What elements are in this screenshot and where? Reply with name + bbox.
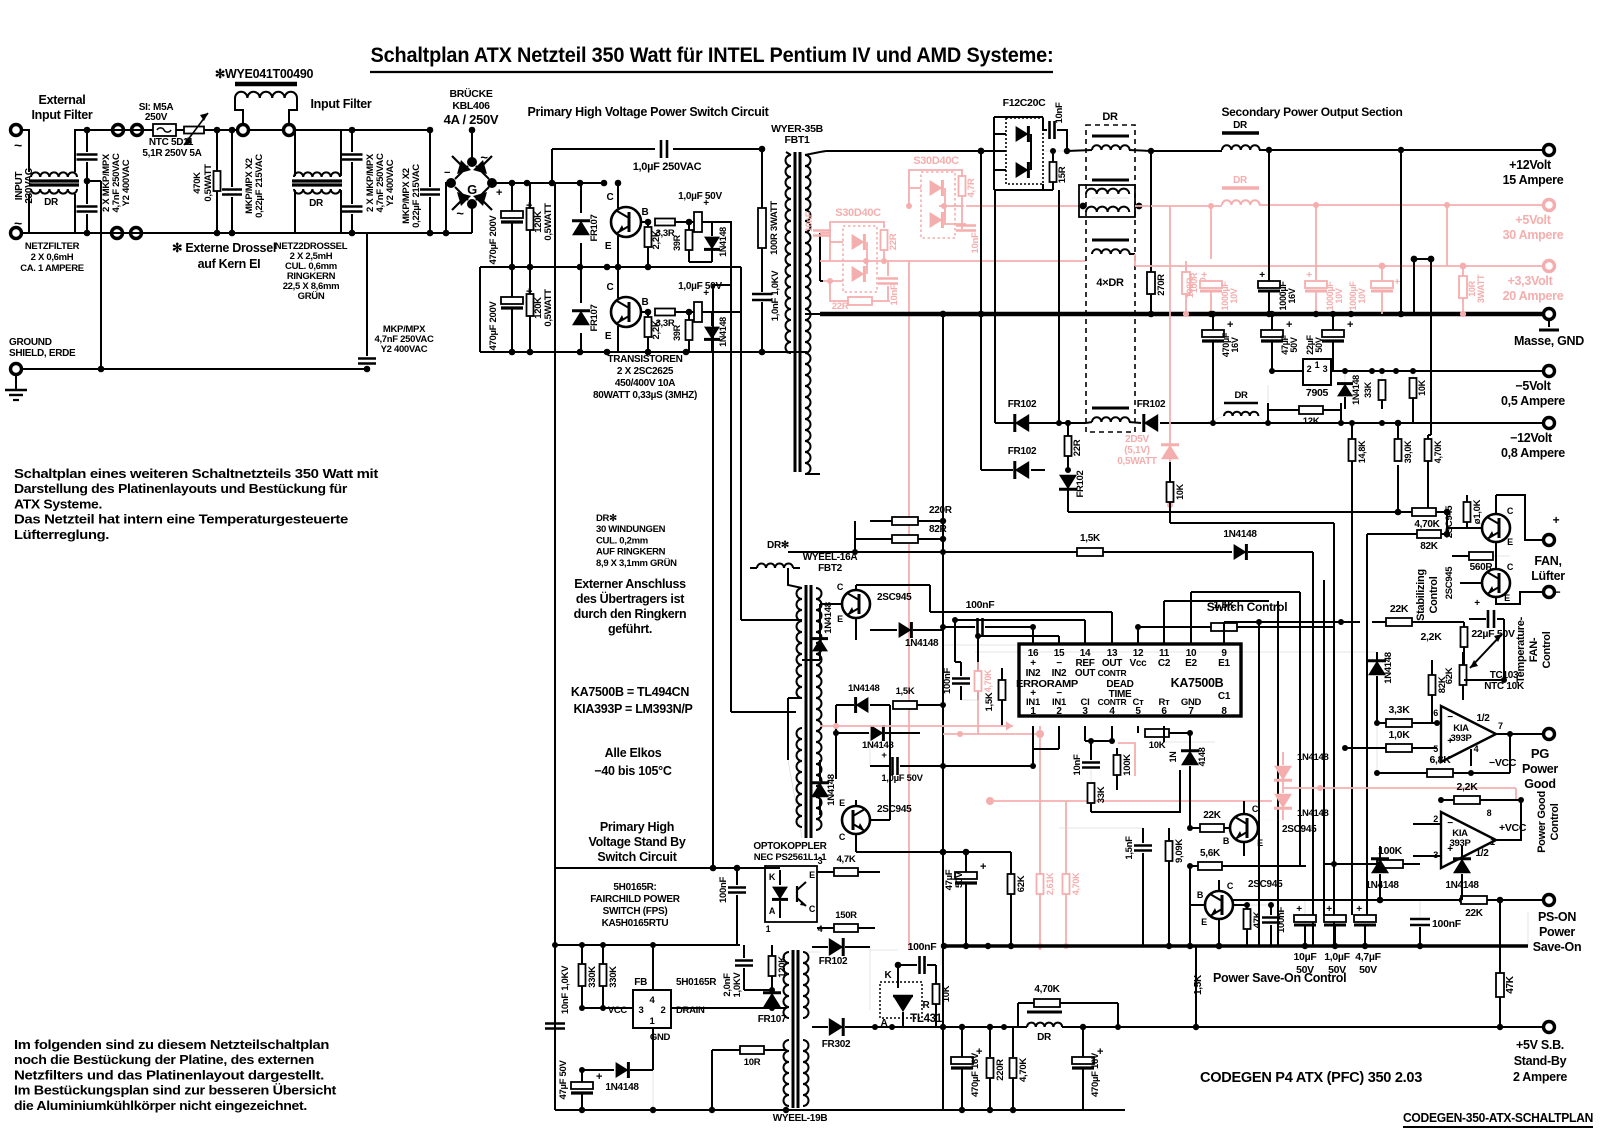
svg-text:5H0165R: 5H0165R (676, 977, 717, 988)
svg-text:100K: 100K (1122, 754, 1133, 776)
capacitor 100nF opto (718, 868, 746, 945)
IC row4 (1016, 679, 1134, 690)
svg-text:4: 4 (1474, 744, 1479, 754)
svg-text:100R 3WATT: 100R 3WATT (769, 201, 780, 255)
resistor 4,70K sbv (1010, 1027, 1030, 1113)
resistor 4,70K pink v (975, 662, 994, 734)
text alle elkos (594, 746, 671, 778)
terminal pair top a (113, 125, 124, 136)
resistor 22R s (1065, 420, 1084, 470)
svg-text:E2: E2 (1185, 658, 1197, 669)
wire sb left v (554, 868, 556, 1110)
svg-text:1,0µF 50V: 1,0µF 50V (678, 191, 722, 202)
label 1,0uF 50V a (678, 191, 722, 202)
resistor 5,6K (1187, 848, 1306, 870)
wire fbt1 sec top (805, 151, 826, 155)
wire choke1 stubs (22, 130, 112, 233)
wire fr102 s1 left (995, 190, 1013, 423)
svg-text:Voltage Stand By: Voltage Stand By (588, 835, 685, 849)
svg-text:+VCC: +VCC (1499, 822, 1527, 834)
capacitor X2b (342, 130, 363, 233)
wire sb bottom rail (555, 1107, 1125, 1113)
inductor DR external (750, 564, 800, 569)
resistor 120K b (527, 264, 534, 356)
wire fan plus (1496, 495, 1543, 540)
svg-text:47K: 47K (1252, 911, 1263, 928)
diode 1N4148 a (704, 222, 728, 262)
svg-text:+: + (596, 1071, 602, 1083)
svg-text:33K: 33K (1363, 381, 1373, 397)
svg-text:Im folgenden sind zu diesem Ne: Im folgenden sind zu diesem Netzteilscha… (14, 1037, 329, 1052)
resistor 100K v (1114, 748, 1134, 790)
svg-text:10nF: 10nF (970, 232, 981, 253)
svg-text:Im Bestückungsplan sind zur be: Im Bestückungsplan sind zur besseren Übe… (14, 1083, 337, 1098)
svg-text:10V: 10V (1334, 288, 1344, 303)
diode 1N4148 mid1 (836, 683, 890, 713)
resistor 82K v (1429, 660, 1449, 723)
wire bridge bottom (430, 204, 472, 233)
svg-text:E: E (839, 798, 845, 808)
svg-text:E: E (1257, 838, 1263, 848)
svg-text:+: + (881, 750, 887, 761)
svg-text:FR102: FR102 (1137, 399, 1166, 410)
wire pink h801 (986, 797, 1272, 805)
svg-text:SHIELD, ERDE: SHIELD, ERDE (9, 348, 76, 359)
transistor Q 2SC945 b (839, 798, 912, 842)
capacitor 2,0nF (722, 945, 753, 997)
svg-text:durch den Ringkern: durch den Ringkern (574, 607, 687, 621)
svg-text:Lüfterreglung.: Lüfterreglung. (14, 527, 109, 542)
svg-text:Das Netzteil hat intern eine T: Das Netzteil hat intern eine Temperaturg… (14, 512, 348, 527)
svg-text:FB: FB (634, 977, 647, 988)
svg-text:C1: C1 (1218, 691, 1231, 702)
wire f12 left (826, 117, 1006, 190)
svg-text:S30D40C: S30D40C (835, 207, 881, 219)
svg-text:C: C (837, 582, 844, 592)
label NETZFILTER (20, 241, 84, 274)
svg-text:62K: 62K (1444, 667, 1455, 684)
resistor 4,70K r (1425, 435, 1444, 512)
wire fan area (1464, 619, 1507, 683)
svg-text:250V: 250V (145, 112, 168, 123)
svg-text:1,5nF: 1,5nF (1124, 836, 1135, 860)
wire fr102 s2 (981, 469, 1013, 471)
wire pson up (1527, 912, 1529, 946)
resistor 330K a (579, 945, 599, 1011)
svg-text:330K: 330K (608, 966, 619, 988)
svg-text:2SC945: 2SC945 (1282, 824, 1317, 835)
capacitor 10uF50V (1294, 880, 1318, 976)
svg-text:22K: 22K (1203, 810, 1222, 821)
diode FR102 s2 (1008, 446, 1045, 479)
svg-text:470µF 200V: 470µF 200V (488, 301, 499, 351)
svg-text:OUT: OUT (1075, 668, 1095, 679)
wire filter bottom rail (29, 230, 146, 237)
svg-text:Y2 400VAC: Y2 400VAC (381, 344, 428, 355)
label power good control (1536, 791, 1561, 853)
diode 1N4148 ic7 (1168, 733, 1207, 828)
wire mid rail drop (479, 267, 481, 352)
svg-text:16V: 16V (1287, 288, 1297, 303)
label -12Volt (1501, 431, 1565, 460)
svg-text:R: R (923, 1000, 931, 1011)
svg-text:WYEEL-16A: WYEEL-16A (803, 552, 858, 563)
svg-text:4,70K: 4,70K (1433, 440, 1443, 463)
label 1,0nF 1,0KV (770, 270, 781, 322)
resistor 47K pson (1496, 900, 1516, 1030)
label Input Filter (311, 97, 372, 111)
wire plus rail (492, 180, 607, 187)
svg-text:C: C (1507, 562, 1514, 572)
svg-text:4148: 4148 (1197, 747, 1207, 766)
text KA7500B equiv (571, 685, 693, 716)
transistor Q2 2SC2625 (605, 282, 649, 342)
resistor 15R (1043, 148, 1068, 190)
svg-text:4,70K: 4,70K (1414, 519, 1440, 530)
label codegen file (1403, 1111, 1593, 1127)
svg-text:DR: DR (1233, 175, 1248, 186)
diode FR107 b (572, 267, 600, 352)
label SI M5A (139, 102, 174, 123)
diode 1N4148 b (704, 312, 728, 352)
diode 1N4148 mid2 (833, 705, 920, 779)
svg-text:C: C (809, 904, 816, 914)
svg-text:CUL. 0,2mm: CUL. 0,2mm (596, 535, 648, 546)
label stabilizing control (1415, 569, 1440, 621)
svg-text:DR✻: DR✻ (596, 513, 617, 524)
wire h828 (1059, 827, 1143, 829)
svg-text:S30D40C: S30D40C (913, 155, 959, 167)
inductor DR4 in box (1086, 408, 1141, 423)
resistor 3,3R b (655, 309, 692, 316)
svg-text:30 WINDUNGEN: 30 WINDUNGEN (596, 524, 666, 535)
svg-text:8,9 X 3,1mm GRÜN: 8,9 X 3,1mm GRÜN (596, 558, 677, 569)
diode 1N4148 p1 (1365, 846, 1399, 903)
wire pink h734 (943, 726, 1044, 738)
svg-text:+: + (1227, 319, 1233, 331)
label MKP X2 (244, 154, 265, 218)
svg-text:CODEGEN P4 ATX (PFC) 350 2.03: CODEGEN P4 ATX (PFC) 350 2.03 (1200, 1070, 1422, 1086)
wire fbt1 sec bottom (805, 473, 820, 475)
svg-text:7905: 7905 (1306, 387, 1329, 399)
inductor DR +12 (1222, 120, 1260, 150)
resistor 120K sb (769, 945, 789, 993)
svg-text:4,70K: 4,70K (1018, 1058, 1029, 1082)
svg-text:1N4148: 1N4148 (905, 638, 939, 649)
svg-text:1N4148: 1N4148 (826, 774, 837, 805)
resistor 22R pink b (830, 281, 890, 312)
svg-text:C: C (607, 192, 614, 203)
svg-text:4,7K: 4,7K (837, 854, 856, 865)
svg-text:FR102: FR102 (1008, 399, 1037, 410)
label FAN (1531, 554, 1565, 583)
svg-text:50V: 50V (1289, 337, 1299, 352)
svg-text:0,22µF 215VAC: 0,22µF 215VAC (254, 154, 265, 218)
wire q d (1187, 866, 1205, 949)
label TL431 (910, 1013, 943, 1025)
wire h645 (943, 644, 1033, 646)
wire op2 (1413, 800, 1521, 856)
svg-text:450/400V 10A: 450/400V 10A (615, 378, 675, 389)
text externer anschluss (574, 577, 687, 636)
bus standby thick (941, 944, 1528, 948)
wire long v bundle (1259, 592, 1300, 946)
resistor 39R b (672, 312, 693, 352)
svg-text:CA. 1 AMPERE: CA. 1 AMPERE (20, 263, 84, 274)
wire fbt3 conn (786, 952, 820, 1008)
svg-text:1,0KV: 1,0KV (732, 972, 743, 998)
svg-text:1,5K: 1,5K (984, 692, 995, 711)
svg-text:~: ~ (480, 150, 488, 165)
opamp KIA393P 2 (1433, 808, 1527, 868)
svg-text:FR107: FR107 (589, 304, 600, 331)
svg-text:2: 2 (1056, 706, 1062, 717)
IC KA7500B box (1019, 644, 1241, 716)
capacitor 1000uF16V black (1258, 150, 1297, 317)
svg-text:1/2: 1/2 (1475, 848, 1489, 859)
resistor 100K op2 (1324, 845, 1420, 868)
svg-text:IN2: IN2 (1026, 668, 1041, 679)
diode FR107 sb (744, 990, 787, 1025)
opamp KIA393P 1 (1433, 706, 1503, 762)
diode module F12C20C (1006, 118, 1043, 184)
svg-text:1/2: 1/2 (1476, 713, 1490, 724)
thermistor TC103 (1470, 634, 1525, 692)
svg-text:50V: 50V (1296, 964, 1314, 976)
terminal PS-ON (1544, 895, 1555, 906)
resistor 4,7K opto (817, 854, 880, 876)
svg-text:82K: 82K (1420, 541, 1439, 552)
wire to bridge bottom (420, 232, 430, 234)
svg-text:30 Ampere: 30 Ampere (1503, 228, 1564, 242)
ground symbol (5, 375, 27, 400)
svg-text:+: + (1201, 270, 1207, 281)
transformer FBT2 left winding (797, 588, 802, 827)
resistor 10K tl (933, 965, 953, 1027)
svg-text:5: 5 (1433, 744, 1438, 754)
svg-text:✻WYE041T00490: ✻WYE041T00490 (215, 67, 314, 81)
wire pg v (1376, 723, 1378, 773)
svg-text:Darstellung des Platinenlayout: Darstellung des Platinenlayouts und Best… (14, 481, 347, 496)
svg-text:DR: DR (1037, 1032, 1052, 1043)
svg-text:+: + (1394, 277, 1400, 288)
svg-text:12K: 12K (1303, 416, 1320, 427)
svg-text:+: + (1356, 904, 1362, 915)
label Primary High Voltage Power Switch Circuit (528, 105, 770, 119)
resistor 6,8K (1374, 734, 1510, 777)
resistor 1,0K fan (1464, 495, 1484, 528)
resistor 2,2K v (1412, 622, 1468, 683)
svg-text:0,8 Ampere: 0,8 Ampere (1501, 446, 1565, 460)
resistor 39R a (672, 222, 693, 262)
svg-text:+: + (1306, 270, 1312, 281)
resistor 330K b (600, 945, 620, 1011)
resistor 62K v2 (1444, 652, 1467, 700)
svg-text:Y2 400VAC: Y2 400VAC (385, 159, 396, 206)
svg-text:B: B (642, 207, 649, 218)
svg-text:Alle Elkos: Alle Elkos (605, 746, 662, 760)
label Secondary Power Output Section (1221, 105, 1402, 119)
svg-text:1,0µF 250VAC: 1,0µF 250VAC (633, 161, 702, 173)
capacitor X1b (77, 207, 98, 212)
transistor Q fan1 (1482, 506, 1514, 547)
svg-text:47K: 47K (1505, 975, 1516, 994)
diode 1N4148 sb (579, 1062, 656, 1113)
vertical 1N4148 fbt2 (812, 602, 834, 651)
label 2xMKP left (101, 153, 132, 212)
resistor 120K a (527, 183, 534, 267)
resistor 1,5K h552 (1077, 533, 1103, 556)
svg-text:+: + (1326, 904, 1332, 915)
svg-text:+: + (1553, 513, 1560, 527)
svg-text:NETZFILTER: NETZFILTER (25, 241, 80, 252)
resistor 10K ic (1138, 726, 1193, 751)
svg-text:1: 1 (1490, 837, 1495, 847)
wire v731 drive (731, 285, 796, 712)
IC row6 (1026, 697, 1201, 708)
svg-text:2,2K: 2,2K (1421, 631, 1443, 643)
svg-text:6: 6 (1161, 706, 1167, 717)
svg-text:1N4148: 1N4148 (1365, 880, 1399, 891)
capacitor 22uF50V fan (1469, 598, 1515, 640)
svg-text:2SC945: 2SC945 (1248, 879, 1283, 890)
capacitor 1,5nF (1124, 828, 1152, 946)
resistor 2,2K b (645, 312, 663, 352)
svg-text:220R: 220R (929, 505, 953, 516)
svg-text:Save-On: Save-On (1533, 940, 1582, 954)
svg-text:E: E (605, 331, 612, 342)
svg-text:8: 8 (1487, 808, 1492, 818)
svg-text:470K: 470K (192, 172, 203, 194)
title text (370, 44, 1054, 72)
wire h552 (788, 551, 1180, 553)
wire pink upper rail (966, 205, 1079, 207)
svg-text:33K: 33K (1096, 786, 1107, 803)
wire pink low diode (820, 278, 843, 284)
inductor DR2 in box (1079, 180, 1135, 217)
svg-text:FR102: FR102 (1008, 446, 1037, 457)
label 3,3R a (656, 228, 675, 239)
svg-text:2SC945: 2SC945 (1444, 566, 1455, 600)
capacitor Y 4,7nF (358, 233, 376, 369)
inductor DR3 in box (1092, 240, 1135, 266)
svg-text:1N4148: 1N4148 (823, 602, 834, 633)
resistor 1,0K pg (1342, 729, 1437, 752)
svg-text:Power Save-On Control: Power Save-On Control (1213, 971, 1346, 985)
resistor 22K r1 (1372, 603, 1437, 626)
svg-text:10nF: 10nF (804, 211, 814, 232)
svg-text:100K: 100K (1378, 845, 1403, 857)
svg-text:E1: E1 (1218, 658, 1230, 669)
terminal ground (11, 364, 22, 375)
svg-text:C: C (1227, 881, 1234, 891)
label 1,0uF 50V b (678, 281, 722, 292)
svg-text:die Aluminiumkühlkörper nicht: die Aluminiumkühlkörper nicht eingezeich… (14, 1098, 307, 1113)
svg-text:~: ~ (14, 215, 22, 231)
label WYER-35B FBT1 (771, 123, 824, 146)
svg-text:5,6K: 5,6K (1200, 848, 1221, 859)
svg-text:Input Filter: Input Filter (32, 108, 93, 122)
svg-text:2: 2 (1433, 814, 1438, 824)
svg-text:PG: PG (1531, 746, 1549, 761)
wire v955 (954, 620, 956, 662)
wire v713 long (712, 285, 714, 868)
svg-text:4,70K: 4,70K (1071, 872, 1081, 895)
svg-text:FBT1: FBT1 (784, 134, 810, 146)
wire v1164 below (1164, 726, 1215, 742)
svg-text:CONTR: CONTR (1098, 668, 1127, 678)
capacitor 1000uF10V p2 (1305, 205, 1344, 317)
label MKP X2 b (401, 164, 422, 228)
svg-text:10R: 10R (744, 1057, 761, 1068)
svg-text:1N4148: 1N4148 (1297, 752, 1328, 763)
resistor 150R opto (817, 910, 875, 932)
wire q1 bnet bottom (689, 222, 731, 285)
svg-text:6,8K: 6,8K (1430, 754, 1452, 766)
choke DR2 netzdrossel (292, 172, 342, 209)
svg-text:16V: 16V (1230, 337, 1240, 352)
text DR star (596, 513, 677, 569)
wire q945b (856, 800, 890, 848)
capacitor 100nF pson (1410, 900, 1462, 949)
diode 1N4148 r (1360, 652, 1394, 723)
capacitor 0,22 at bridge (420, 127, 440, 237)
wire rail up (551, 149, 553, 183)
label 3,3R b (656, 318, 675, 329)
svg-text:4×DR: 4×DR (1096, 277, 1124, 289)
capacitor 1000uF10V p1 (1185, 270, 1239, 317)
svg-text:2: 2 (1307, 364, 1312, 374)
svg-text:+12Volt: +12Volt (1509, 158, 1552, 172)
zener 2D5V pink (1161, 206, 1179, 508)
svg-text:K: K (769, 872, 776, 882)
module S30D40C lower label (835, 207, 881, 219)
svg-text:7: 7 (1188, 706, 1194, 717)
label 2xMKP right (365, 153, 396, 212)
svg-text:DR: DR (1102, 111, 1118, 123)
svg-text:3: 3 (818, 856, 823, 866)
wire rail fuse to bridge (217, 127, 420, 134)
label 2D5V (1117, 434, 1157, 467)
wire h852 (856, 848, 1011, 855)
svg-text:DR: DR (309, 198, 324, 209)
wire v741 drive (741, 312, 802, 620)
label 5H0165R fairchild (590, 882, 680, 929)
resistor 9,09K (1166, 828, 1186, 949)
svg-text:100nF: 100nF (908, 941, 938, 953)
svg-text:22K: 22K (1465, 908, 1484, 919)
wire pink upper out (939, 196, 964, 209)
svg-text:+: + (1474, 598, 1480, 609)
svg-text:−5Volt: −5Volt (1515, 379, 1551, 393)
resistor 220R (870, 505, 953, 525)
wire sb top rail (552, 942, 740, 948)
svg-text:10V: 10V (1357, 288, 1367, 303)
module S30D40C upper label (913, 155, 959, 167)
svg-text:3: 3 (639, 1005, 644, 1016)
svg-text:Vcc: Vcc (1130, 658, 1148, 669)
diode FR102 s3 (1137, 399, 1205, 432)
label 120K b (533, 289, 554, 327)
transistor Q 2SC945 d (1197, 879, 1283, 949)
svg-text:82R: 82R (929, 524, 948, 535)
capacitor 1,0uF50V mid (870, 733, 946, 784)
diode FR102 t (812, 938, 870, 967)
svg-text:NEC PS2561L1-1: NEC PS2561L1-1 (754, 852, 828, 863)
svg-text:Primary High: Primary High (600, 820, 674, 834)
diode FR102 s4 (1059, 467, 1086, 498)
svg-text:−: − (1554, 585, 1561, 599)
